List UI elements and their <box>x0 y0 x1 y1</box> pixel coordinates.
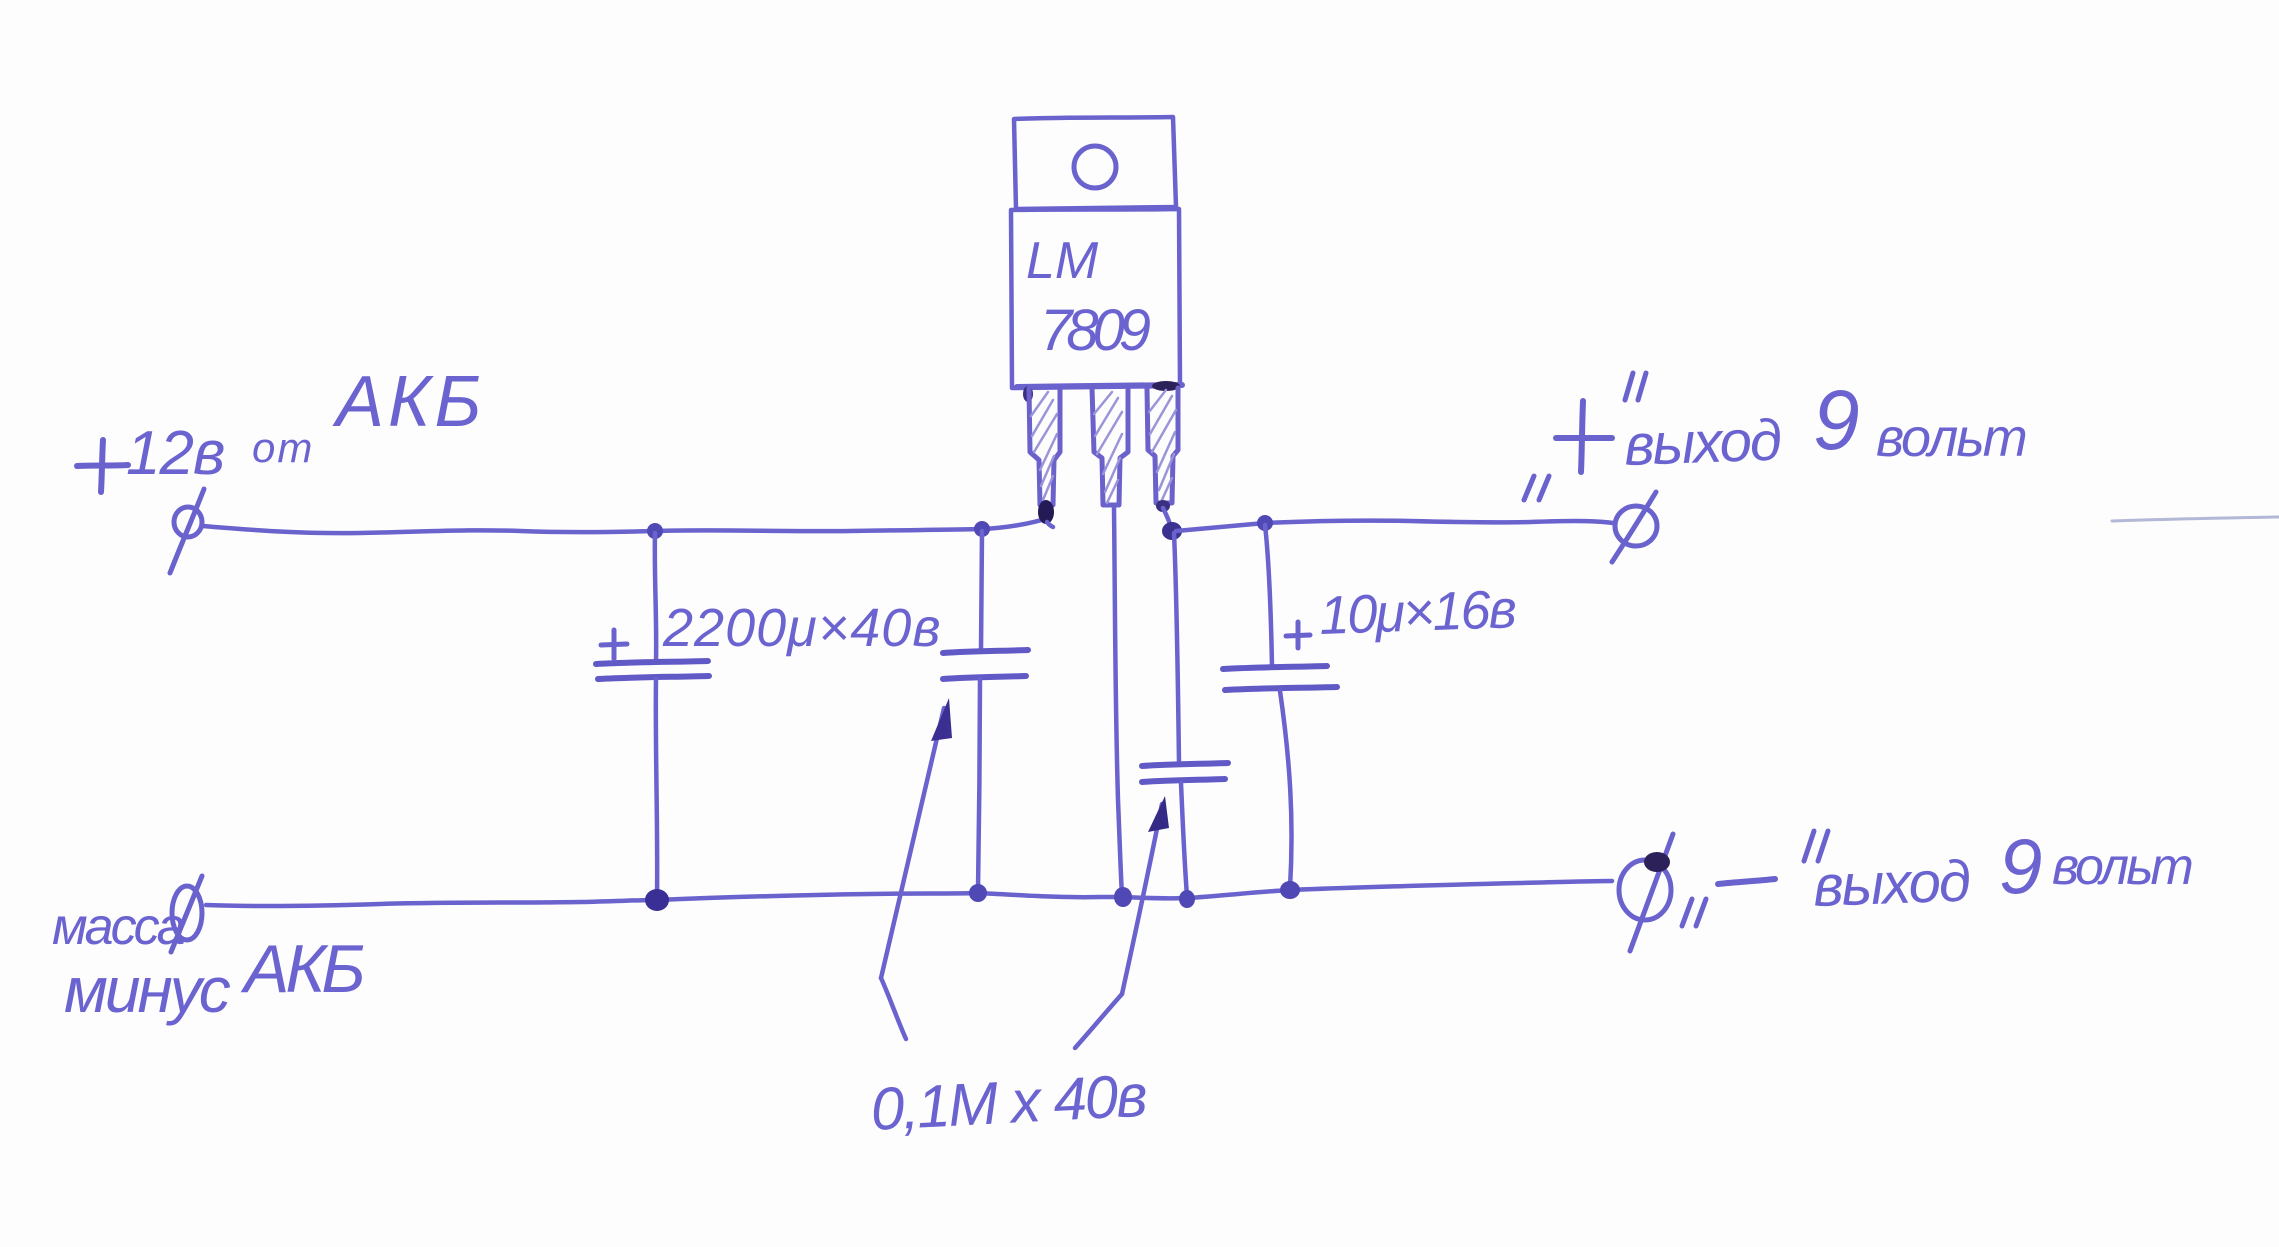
svg-text:7809: 7809 <box>1040 298 1151 363</box>
svg-text:АКБ: АКБ <box>332 362 485 442</box>
terminal output + (top-right) <box>1612 492 1657 562</box>
capacitor C1 2200u x 40v <box>596 533 942 898</box>
svg-text:9: 9 <box>1999 822 2042 910</box>
svg-text:LM: LM <box>1026 232 1099 290</box>
wire ground leg to bottom rail <box>1114 508 1122 896</box>
capacitor C4 0.1u (right ceramic) <box>1142 533 1228 896</box>
dark blob body bottom-right <box>1152 381 1180 391</box>
wire output leg to top rail <box>1163 508 1172 530</box>
faint page edge line top-right <box>2112 517 2279 521</box>
svg-text:0,1М х 40в: 0,1М х 40в <box>869 1062 1148 1143</box>
wire top rail left <box>203 518 1048 533</box>
regulator U1 LM7809 tab <box>1014 117 1176 209</box>
node bottom rail / C4 <box>1179 890 1195 908</box>
wire bottom rail <box>206 881 1612 906</box>
label +12в от АКБ <box>77 362 485 492</box>
leg 1 tip blob <box>1038 500 1054 524</box>
pin 2 ground leg <box>1092 388 1128 505</box>
svg-text:минус: минус <box>64 954 231 1026</box>
node bottom rail / ground leg <box>1114 887 1132 907</box>
svg-text:выход: выход <box>1623 408 1782 478</box>
pin 1 input leg <box>1029 388 1060 527</box>
leg 3 tip blob <box>1156 500 1170 512</box>
wire top rail right <box>1176 521 1613 531</box>
svg-text:10μ×16в: 10μ×16в <box>1318 579 1516 646</box>
svg-text:масса: масса <box>52 898 185 956</box>
svg-text:выход: выход <box>1812 849 1971 919</box>
junction blob output <box>1162 522 1182 540</box>
svg-text:12в: 12в <box>126 419 224 488</box>
annotation arrow to C4 <box>1075 796 1169 1048</box>
node bottom rail / C1 (big) <box>645 889 669 911</box>
capacitor C2 0.1u (left ceramic) <box>943 531 1028 891</box>
svg-text:АКБ: АКБ <box>240 931 363 1007</box>
svg-text:вольт: вольт <box>1876 408 2026 468</box>
node bottom rail / C3 <box>1280 881 1300 899</box>
svg-text:9: 9 <box>1813 373 1860 467</box>
terminal ground (inline phi) <box>171 876 202 952</box>
pin 3 output leg <box>1147 388 1178 512</box>
terminal input (top-left) <box>170 489 204 573</box>
node top rail / C3 <box>1257 515 1273 531</box>
label +"выход 9 вольт" <box>1524 373 2026 500</box>
dark blob body bottom-left <box>1023 386 1033 402</box>
mounting hole <box>1074 146 1116 188</box>
label -"выход 9 вольт" (bottom-right) <box>1682 822 2191 926</box>
annotation arrow to C2 <box>881 698 952 1039</box>
svg-text:вольт: вольт <box>2052 838 2191 896</box>
terminal output - (bottom-right) <box>1619 834 1673 951</box>
node top rail / C1 <box>647 523 663 539</box>
node top rail / C2 <box>974 521 990 537</box>
capacitor C3 10u x 16v <box>1223 525 1517 888</box>
svg-text:2200μ×40в: 2200μ×40в <box>662 598 942 658</box>
regulator U1 body <box>1011 209 1182 402</box>
node bottom rail / C2 <box>969 884 987 902</box>
svg-text:от: от <box>252 424 314 471</box>
